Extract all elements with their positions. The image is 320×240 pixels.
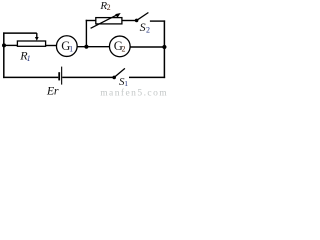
node A: junction dot on left rail xyxy=(2,43,6,47)
wire: R2 to S2 pivot xyxy=(122,20,136,22)
switch S2 pivot dot xyxy=(135,19,139,23)
galvanometer G2 xyxy=(109,36,130,57)
node B: junction dot between G1 and G2 xyxy=(84,45,88,49)
galvanometer G1 xyxy=(56,36,77,57)
svg-text:S: S xyxy=(140,20,146,34)
battery positive plate (long thin) xyxy=(61,67,62,85)
resistor R2 box (variable) xyxy=(96,18,122,24)
wire: right rail xyxy=(163,20,165,78)
svg-text:1: 1 xyxy=(27,54,31,63)
battery negative plate (short thick) xyxy=(58,72,60,80)
wire: junction to R1 left xyxy=(4,44,17,46)
svg-text:1: 1 xyxy=(69,44,73,53)
wire: battery to S1 pivot xyxy=(62,76,114,78)
svg-text:manfen5.com: manfen5.com xyxy=(100,88,168,97)
wire: G1 to G2 xyxy=(77,46,110,48)
wire: bottom rail left (to battery) xyxy=(3,76,58,78)
R2 diagonal arrow xyxy=(91,13,121,28)
resistor R1 box xyxy=(17,41,45,46)
switch S1 blade xyxy=(114,68,125,77)
svg-text:r: r xyxy=(54,84,59,96)
wire: S2 to top-right corner xyxy=(150,20,165,22)
svg-text:1: 1 xyxy=(124,79,128,88)
wire: G2 to right rail xyxy=(130,46,164,48)
wire: S1 to bottom-right corner xyxy=(129,76,165,78)
switch S1 pivot dot xyxy=(112,76,116,80)
wire: branch vertical up to R2 level xyxy=(85,20,87,47)
svg-text:2: 2 xyxy=(107,3,111,12)
node C: junction dot on right rail xyxy=(162,45,166,49)
wire: R1 to G1 xyxy=(46,45,57,47)
svg-text:2: 2 xyxy=(146,26,150,35)
switch S2 blade xyxy=(137,13,149,21)
rheostat slider arrow (onto R1) xyxy=(35,33,39,41)
wire: left rail xyxy=(3,32,5,78)
wire: top-left horizontal (slider lead) xyxy=(3,32,37,34)
svg-text:2: 2 xyxy=(122,44,126,53)
wire: branch horizontal to R2 left xyxy=(86,20,96,22)
